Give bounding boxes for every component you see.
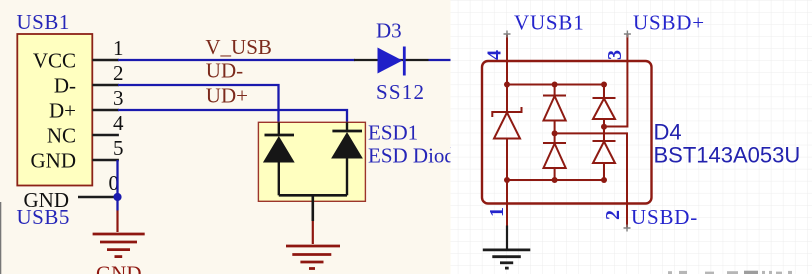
svg-text:3: 3 [113,86,124,110]
pin 0 stub [78,196,118,198]
ESD1 gnd drop black [311,195,314,221]
svg-text:ESD Diod: ESD Diod [368,144,455,168]
svg-text:USB1: USB1 [17,10,70,34]
right sheet background [451,0,812,274]
D4 right column diodes [593,85,616,181]
ESD1 left diode [264,122,294,195]
svg-text:USBD+: USBD+ [633,11,705,35]
svg-text:GND: GND [31,148,77,172]
svg-text:D4: D4 [654,120,682,145]
window edge sliver [0,202,1,274]
svg-text:VCC: VCC [33,48,76,72]
svg-text:V_USB: V_USB [205,35,272,59]
pin 4 stub [92,134,119,136]
pin 2 internal wire [555,133,627,228]
wire pin5 to gnd [116,160,118,211]
pin 3 internal wire [604,61,627,127]
svg-text:2: 2 [113,61,124,85]
D4 top bus [507,84,604,86]
part D4 body [482,61,652,204]
svg-text:USB5: USB5 [17,205,70,229]
ESD1 gnd drop red [312,221,314,244]
pin 4 cross [504,31,511,38]
ESD1 right diode [332,122,362,195]
wire UD- [118,85,279,122]
ground symbol ESD [286,246,340,269]
ESD1 bottom link [279,194,347,197]
wire V_USB right [429,59,452,61]
left sheet background [0,0,451,274]
ground symbol GND left [93,234,145,257]
D4 zener D [492,61,521,180]
pin 2 stub [92,84,119,86]
connector USB1 body [17,34,92,186]
pin 5 stub [92,159,119,161]
junction dot [113,193,121,201]
pin 1 wire [506,180,508,226]
svg-text:NC: NC [47,123,76,147]
pin 2 cross [624,225,631,232]
D4 mid column diodes [543,85,566,181]
D4 right mid junction dot [601,124,607,130]
svg-text:3: 3 [604,50,626,60]
pin 3 stub [92,109,119,111]
wire gnd red [116,211,118,233]
svg-text:1: 1 [486,207,508,217]
svg-text:1: 1 [113,36,124,60]
right sheet grid [451,0,812,274]
gnd wire black [506,226,508,250]
svg-text:D3: D3 [376,19,402,43]
svg-text:4: 4 [484,50,506,60]
svg-text:D+: D+ [49,98,76,122]
svg-text:SS12: SS12 [376,80,425,104]
svg-text:USBD-: USBD- [631,205,698,229]
svg-text:UD-: UD- [206,59,243,83]
pin 3 cross [624,31,631,38]
svg-text:UD+: UD+ [206,84,248,108]
clipped caption slivers [668,271,792,274]
diode D3 lead [354,59,429,61]
D4 junction dots bottom [504,177,607,183]
pin 4 wire [506,34,508,61]
svg-text:2: 2 [602,210,624,220]
wire V_USB left [118,59,355,61]
pin 3 wire [626,34,628,61]
diode D3 [378,47,405,76]
svg-text:D-: D- [54,73,76,97]
ground symbol D4 [483,250,531,268]
svg-text:4: 4 [113,111,124,135]
svg-text:GND: GND [96,261,142,274]
svg-text:ESD1: ESD1 [368,121,418,145]
wire UD+ [118,110,347,122]
pin 1 stub [92,59,119,61]
svg-text:VUSB1: VUSB1 [514,11,585,35]
svg-text:BST143A053U: BST143A053U [654,143,801,168]
D4 mid junction dot [552,130,558,136]
ESD1 body [258,122,365,201]
D4 bottom bus [507,179,604,181]
svg-text:5: 5 [113,136,124,160]
D4 junction dots top [504,82,607,88]
